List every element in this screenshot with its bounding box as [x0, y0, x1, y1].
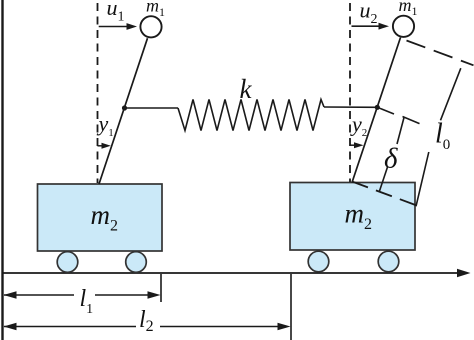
ground / position axis — [2, 272, 460, 274]
cart 1 body m2 — [38, 184, 163, 251]
angle arrow y1 — [98, 145, 105, 147]
dimension line l1 left part — [4, 294, 74, 296]
cart 1 left wheel — [57, 252, 78, 273]
dashed perpendicular tick at top of l0 — [407, 41, 474, 66]
svg-text:k: k — [240, 74, 253, 104]
pendulum bob m1 (left) — [140, 16, 161, 37]
angle arrow y2 — [350, 144, 357, 146]
spring connecting link right — [324, 106, 377, 108]
ground axis arrowhead — [457, 269, 471, 278]
wall (left fixed vertical line) — [1, 0, 3, 340]
dashed perpendicular baseline at pivot (bottom of l0) — [352, 182, 419, 207]
svg-text:y2: y2 — [350, 112, 367, 140]
delta dimension tick at spring joint — [377, 107, 394, 114]
dashed vertical reference line 1 — [97, 3, 99, 183]
cart 1 right wheel — [126, 252, 147, 273]
dashed vertical reference line 2 — [349, 3, 351, 182]
dimension line l0 lower segment — [416, 152, 429, 206]
pendulum rod 1 — [99, 38, 148, 184]
dimension line l2 left part — [4, 326, 136, 328]
svg-text:l0: l0 — [435, 119, 450, 153]
delta dimension line lower segment — [380, 167, 388, 191]
cart 2 left wheel — [308, 251, 329, 272]
dimension line l0 upper segment — [441, 68, 461, 120]
force arrow u1 — [99, 26, 128, 28]
joint node on rod 1 — [122, 105, 127, 110]
dimension l1 extension tick — [160, 274, 162, 302]
joint node on rod 2 — [375, 105, 380, 110]
cart 2 right wheel — [378, 251, 399, 272]
pendulum rod 2 — [352, 38, 401, 183]
svg-text:l2: l2 — [139, 307, 154, 335]
cart 2 body m2 — [290, 183, 415, 251]
svg-text:u1: u1 — [107, 0, 125, 24]
delta dimension top tick — [403, 117, 420, 124]
svg-text:u2: u2 — [360, 0, 378, 27]
spring k zigzag — [178, 100, 324, 131]
spring connecting link left — [125, 107, 179, 109]
delta dimension line upper segment — [397, 118, 404, 145]
force arrow u2 — [352, 25, 381, 27]
dimension line l2 right part — [160, 326, 280, 328]
svg-text:y1: y1 — [97, 111, 114, 139]
svg-text:δ: δ — [384, 143, 398, 175]
dimension l2 extension tick — [290, 274, 292, 340]
svg-text:l1: l1 — [80, 286, 94, 317]
pendulum bob m1 (right) — [393, 16, 414, 37]
dimension line l1 right part — [95, 294, 150, 296]
